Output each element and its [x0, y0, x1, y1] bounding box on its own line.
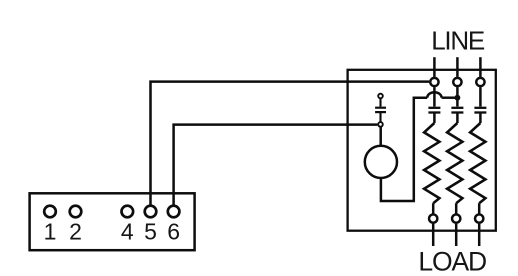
junction dot on branch 2 — [455, 95, 461, 101]
branch 3: LOAD terminal circle — [475, 214, 483, 222]
svg-text:5: 5 — [144, 219, 157, 245]
branch 3: stem to load terminal — [478, 203, 481, 214]
branch 3: load stub — [478, 224, 481, 246]
overload: stem — [379, 112, 381, 122]
branch 3: element top bar — [474, 107, 486, 109]
branch 2: line stub — [456, 57, 459, 77]
branch 1: stem to zigzag — [433, 113, 436, 124]
branch 2: element top bar — [451, 107, 463, 109]
branch 1: heater element zigzag — [424, 123, 439, 203]
branch 2: element bottom bar — [451, 111, 463, 113]
branch 1: element bottom bar — [428, 111, 440, 113]
motor: stem from overload — [379, 127, 382, 147]
svg-text:6: 6 — [167, 219, 180, 245]
branch 3: line stub — [479, 57, 482, 77]
overload: lower contact circle — [378, 122, 383, 127]
branch 1: LOAD terminal circle — [429, 214, 437, 222]
branch 2: stem to load terminal — [455, 203, 458, 214]
overload: top open contact circle — [378, 94, 383, 99]
overload: bottom bar — [375, 111, 386, 113]
svg-text:1: 1 — [44, 219, 57, 245]
branch 2: load stub — [455, 224, 458, 246]
branch 2: heater element zigzag — [447, 123, 462, 203]
branch 1: line stub — [433, 57, 436, 77]
svg-text:LINE: LINE — [431, 25, 485, 55]
branch 2: stem to element — [456, 87, 459, 106]
branch 3: LINE terminal circle — [476, 78, 484, 86]
branch 3: element bottom bar — [474, 111, 486, 113]
branch 1: LINE terminal circle — [430, 78, 438, 86]
terminal 5 — [145, 206, 157, 218]
wire: terminal 6 to overload lower contact — [174, 125, 378, 206]
svg-text:4: 4 — [121, 219, 134, 245]
terminal 2 — [70, 206, 82, 218]
control box — [348, 70, 496, 231]
wire hop over branch 1 — [427, 92, 441, 97]
branch 1: stem to element — [433, 87, 436, 106]
branch 3: stem to element — [479, 87, 482, 106]
overload: stem — [379, 99, 381, 107]
branch 3: stem to zigzag — [479, 113, 482, 124]
svg-text:LOAD: LOAD — [418, 247, 486, 276]
terminal block box — [30, 193, 195, 250]
motor circle M1 — [365, 146, 397, 178]
branch 1: stem to load terminal — [432, 203, 435, 214]
wire to junction on branch 2 — [442, 96, 458, 99]
branch 2: LOAD terminal circle — [452, 214, 460, 222]
svg-text:2: 2 — [69, 219, 82, 245]
overload: top bar — [375, 107, 386, 109]
terminal 4 — [122, 206, 134, 218]
wire: terminal 5 to LINE terminal L1 — [151, 82, 430, 206]
branch 3: heater element zigzag — [470, 123, 485, 203]
branch 1: element top bar — [428, 107, 440, 109]
branch 1: load stub — [432, 224, 435, 246]
terminal 6 — [168, 206, 180, 218]
motor: bottom wire loop to L2 — [381, 98, 427, 201]
terminal 1 — [44, 206, 56, 218]
branch 2: stem to zigzag — [456, 113, 459, 124]
branch 2: LINE terminal circle — [453, 78, 461, 86]
